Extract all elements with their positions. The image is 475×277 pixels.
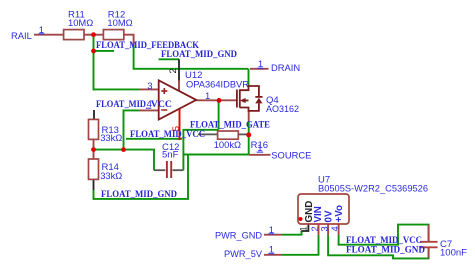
svg-text:4: 4 [330,226,340,231]
svg-text:FLOAT_MID_VCC: FLOAT_MID_VCC [130,130,205,140]
svg-text:RAIL: RAIL [11,30,32,41]
svg-text:SOURCE: SOURCE [271,150,311,161]
svg-text:3: 3 [319,226,329,231]
svg-text:OPA364IDBVR: OPA364IDBVR [186,80,249,91]
svg-text:1: 1 [39,25,44,36]
svg-text:PWR_5V: PWR_5V [224,248,263,259]
svg-text:10MΩ: 10MΩ [68,17,93,28]
svg-text:PWR_GND: PWR_GND [215,229,262,240]
svg-text:5nF: 5nF [162,150,179,161]
svg-text:1: 1 [258,59,263,70]
svg-text:AO3162: AO3162 [266,104,299,115]
svg-text:B0505S-W2R2_C5369526: B0505S-W2R2_C5369526 [318,184,428,195]
svg-text:33kΩ: 33kΩ [100,132,122,143]
svg-text:VCC: VCC [151,100,172,110]
svg-text:0V: 0V [324,210,335,222]
svg-text:100kΩ: 100kΩ [214,139,241,150]
svg-text:FLOAT_MID_GND: FLOAT_MID_GND [346,246,425,256]
svg-text:R16: R16 [251,140,268,151]
svg-text:FLOAT_MID_GND: FLOAT_MID_GND [101,190,177,200]
svg-text:VIN: VIN [313,206,324,222]
svg-text:10MΩ: 10MΩ [107,17,132,28]
svg-text:+Vo: +Vo [334,205,345,223]
svg-text:100nF: 100nF [440,247,467,258]
svg-text:FLOAT_MID_GND: FLOAT_MID_GND [161,50,237,60]
svg-text:1: 1 [269,244,274,255]
svg-text:1: 1 [269,225,274,236]
svg-text:2: 2 [168,68,179,73]
svg-text:FLOAT_MID: FLOAT_MID [96,100,146,110]
svg-text:2: 2 [310,226,320,231]
svg-text:33kΩ: 33kΩ [100,170,122,181]
svg-text:1: 1 [299,226,309,231]
svg-text:DRAIN: DRAIN [271,62,300,73]
svg-text:1: 1 [205,91,210,102]
svg-text:3: 3 [147,81,152,92]
